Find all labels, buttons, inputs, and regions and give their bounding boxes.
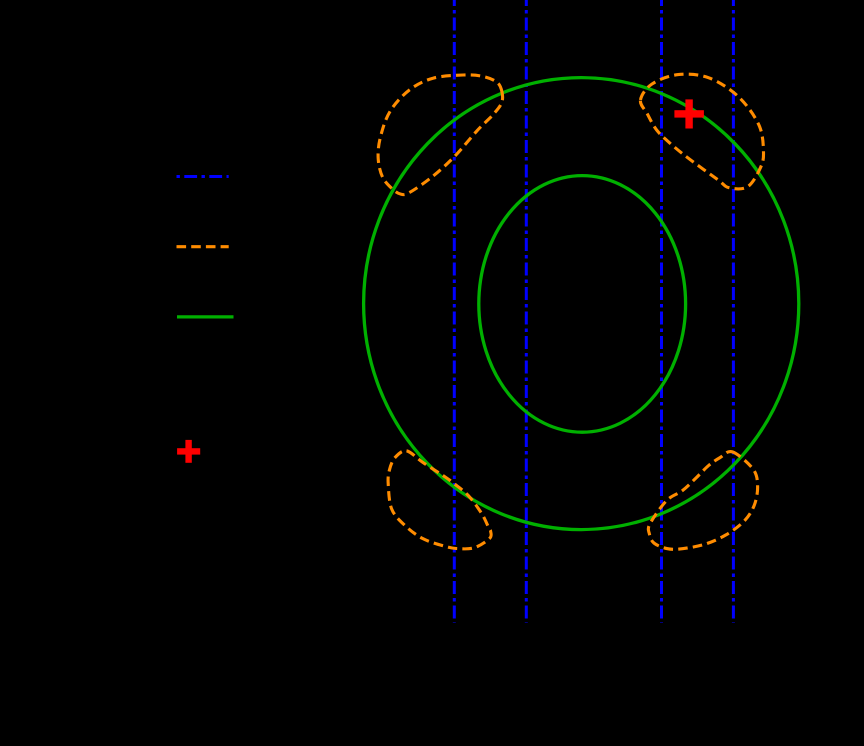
vertical line V4 (blue dash-dot) — [732, 0, 735, 623]
vertical line V2 (blue dash-dot) — [525, 0, 528, 623]
legend handle: orange dashed line — [177, 245, 229, 248]
inner green ellipse — [479, 176, 686, 433]
legend handle: blue dash-dot line — [177, 175, 229, 178]
orange dashed contour, top-right — [640, 74, 763, 189]
orange dashed contour, bottom-left — [388, 451, 491, 549]
outer green ellipse — [364, 78, 799, 530]
legend marker: red plus — [177, 440, 200, 463]
vertical line V3 (blue dash-dot) — [660, 0, 663, 623]
orange dashed contour, top-left — [378, 75, 503, 195]
orange dashed contour, bottom-right — [648, 451, 757, 549]
legend handle: green solid line — [177, 315, 234, 318]
vertical line V1 (blue dash-dot) — [453, 0, 456, 623]
red plus marker (data point) — [674, 99, 704, 128]
